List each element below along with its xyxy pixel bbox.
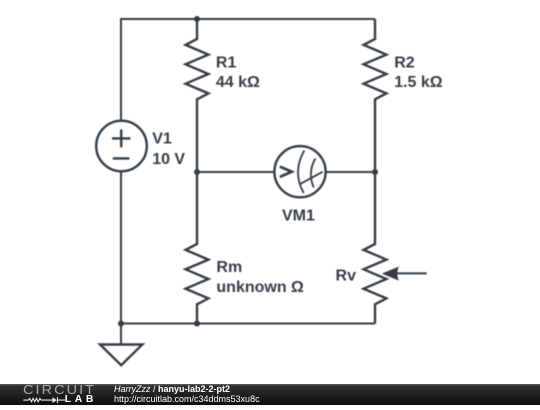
svg-text:Rv: Rv xyxy=(336,268,357,285)
svg-text:V1: V1 xyxy=(152,131,172,148)
svg-text:44 kΩ: 44 kΩ xyxy=(216,74,260,91)
svg-text:Rm: Rm xyxy=(216,259,242,276)
svg-text:R1: R1 xyxy=(216,55,237,72)
svg-text:1.5 kΩ: 1.5 kΩ xyxy=(394,74,443,91)
svg-text:unknown Ω: unknown Ω xyxy=(216,279,304,296)
svg-text:R2: R2 xyxy=(394,55,415,72)
svg-text:10 V: 10 V xyxy=(152,151,185,168)
svg-text:VM1: VM1 xyxy=(282,208,315,225)
